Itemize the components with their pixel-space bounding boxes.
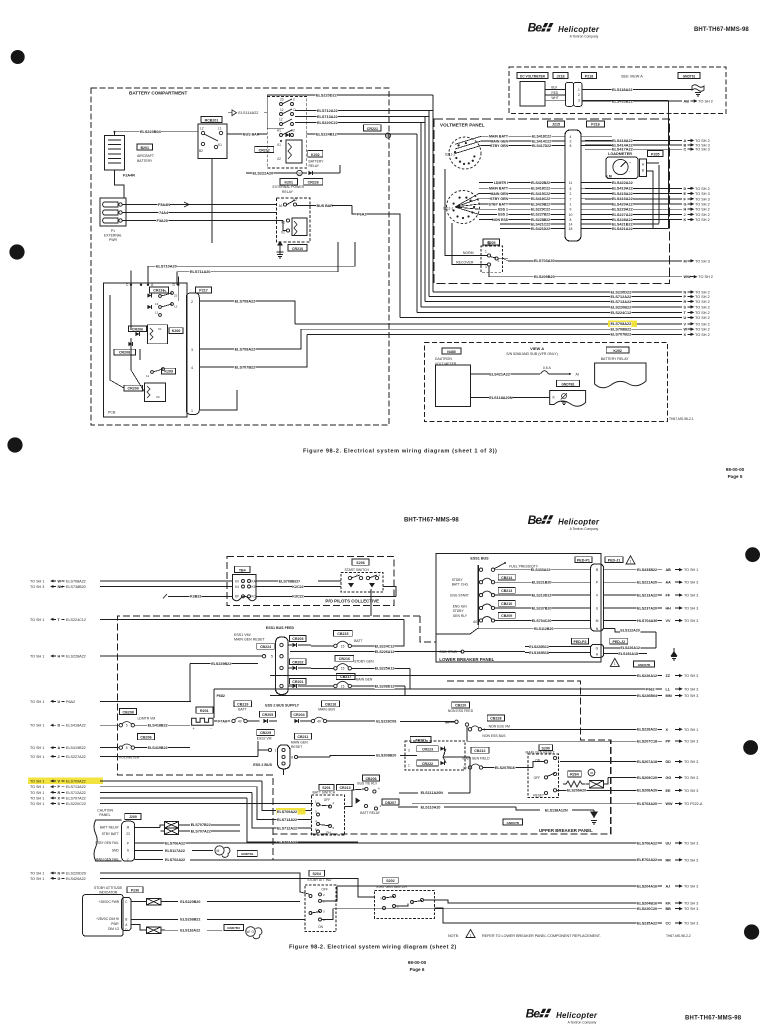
S201 dashed box bbox=[311, 795, 344, 835]
svg-text:12: 12 bbox=[280, 108, 284, 112]
svg-text:TO SH 1: TO SH 1 bbox=[30, 755, 44, 759]
svg-text:ELS110A20: ELS110A20 bbox=[421, 805, 441, 809]
svg-text:98-00-00: 98-00-00 bbox=[408, 960, 427, 965]
svg-text:BHT-TH67-MMS-98: BHT-TH67-MMS-98 bbox=[694, 27, 749, 33]
wire ELS229A22 to TO SH 2 bbox=[585, 208, 682, 210]
svg-text:ELS227A22: ELS227A22 bbox=[612, 213, 633, 217]
svg-text:50: 50 bbox=[445, 721, 449, 725]
svg-text:MAIN GEN: MAIN GEN bbox=[491, 192, 509, 196]
svg-text:S206: S206 bbox=[356, 561, 364, 565]
svg-text:2: 2 bbox=[558, 773, 560, 777]
wire ELS421D22 pin18 bbox=[500, 228, 565, 230]
wire ELS421A22 pin18 right bbox=[581, 228, 668, 230]
svg-text:K202: K202 bbox=[613, 349, 622, 353]
svg-text:J215: J215 bbox=[552, 123, 560, 127]
wires loadmeter bbox=[647, 162, 660, 164]
svg-text:ELS213D22: ELS213D22 bbox=[532, 593, 552, 597]
svg-text:1: 1 bbox=[578, 88, 580, 92]
svg-text:ELS713A22: ELS713A22 bbox=[66, 785, 86, 789]
punch hole bbox=[744, 924, 759, 939]
svg-text:ELS228A22: ELS228A22 bbox=[612, 218, 633, 222]
svg-text:Figure 98-2. Electrical syst: Figure 98-2. Electrical system wiring di… bbox=[289, 945, 457, 951]
svg-text:STDBY ATT IND: STDBY ATT IND bbox=[307, 878, 332, 882]
svg-text:A Textron Company: A Textron Company bbox=[570, 35, 599, 39]
wire ELS712A22 to batt switch bbox=[252, 792, 311, 828]
svg-text:ELS207C18: ELS207C18 bbox=[637, 740, 657, 744]
svg-text:74A4: 74A4 bbox=[159, 211, 169, 215]
label GND07B bbox=[634, 661, 655, 667]
svg-text:ELS707B22: ELS707B22 bbox=[235, 365, 256, 369]
svg-text:TO SH 2: TO SH 2 bbox=[695, 218, 710, 222]
xfuse att1 bbox=[132, 901, 147, 903]
svg-text:BUS TIE RLY: BUS TIE RLY bbox=[357, 781, 378, 785]
label GNDT81 bbox=[237, 850, 257, 856]
svg-text:NON ESS FEED: NON ESS FEED bbox=[448, 709, 474, 713]
svg-text:TO SH 3: TO SH 3 bbox=[30, 585, 44, 589]
svg-text:ELS703A20: ELS703A20 bbox=[637, 802, 657, 806]
svg-text:MAIN GEN RESET: MAIN GEN RESET bbox=[526, 750, 555, 754]
svg-text:ELS116A22: ELS116A22 bbox=[180, 929, 200, 933]
svg-text:TO SH 2: TO SH 2 bbox=[695, 203, 710, 207]
svg-text:ELS112B20: ELS112B20 bbox=[534, 627, 553, 631]
svg-text:ESS1 VM/: ESS1 VM/ bbox=[234, 633, 251, 637]
svg-text:MAIN GEN: MAIN GEN bbox=[318, 708, 335, 712]
svg-text:ELS208B20: ELS208B20 bbox=[376, 754, 396, 758]
switch S205 bbox=[483, 239, 500, 245]
svg-text:J218: J218 bbox=[557, 74, 565, 78]
wire ELS226B12 bbox=[525, 645, 591, 647]
svg-text:TO SH 3: TO SH 3 bbox=[695, 192, 710, 196]
svg-text:ELS416A22: ELS416A22 bbox=[612, 197, 633, 201]
svg-text:TO SH 2: TO SH 2 bbox=[695, 333, 710, 337]
svg-text:ELS422B22: ELS422B22 bbox=[531, 181, 550, 185]
dc voltmeter body bbox=[520, 82, 545, 107]
svg-text:10: 10 bbox=[569, 213, 573, 217]
wire G row bend bbox=[224, 878, 374, 897]
svg-text:TO SH 2: TO SH 2 bbox=[695, 208, 710, 212]
svg-text:5: 5 bbox=[570, 187, 572, 191]
rotary switch S211-2 bbox=[449, 137, 481, 169]
label GND7B3 bbox=[224, 924, 244, 930]
svg-text:ELS420A22: ELS420A22 bbox=[66, 877, 86, 881]
svg-text:TO SH 2: TO SH 2 bbox=[695, 311, 710, 315]
svg-text:W: W bbox=[684, 328, 688, 332]
svg-text:CR210: CR210 bbox=[292, 247, 303, 251]
svg-text:LL: LL bbox=[666, 687, 671, 691]
svg-text:15: 15 bbox=[341, 644, 345, 648]
breaker CB224 contacts bbox=[262, 655, 265, 658]
wire ELS708A22 to TO SH 2 bbox=[295, 323, 682, 325]
svg-text:1: 1 bbox=[485, 250, 487, 254]
svg-text:Helicopter: Helicopter bbox=[558, 518, 600, 527]
wires P216 to labels right bbox=[581, 135, 612, 137]
svg-text:CR212: CR212 bbox=[259, 148, 270, 152]
svg-text:CB225: CB225 bbox=[260, 731, 271, 735]
wire ELS213A22 to TO SH 3 bbox=[604, 594, 662, 596]
svg-text:GNDT61: GNDT61 bbox=[683, 74, 696, 78]
svg-text:VIEW A: VIEW A bbox=[530, 346, 544, 351]
svg-text:X1: X1 bbox=[277, 143, 281, 147]
svg-text:1: 1 bbox=[570, 203, 572, 207]
svg-text:AB: AB bbox=[684, 100, 690, 104]
wire ELS712A22 bbox=[295, 110, 433, 112]
switch S206 start switch bbox=[352, 559, 369, 565]
wire ELS421A22 viewA bbox=[470, 373, 540, 375]
svg-text:ELS418C22: ELS418C22 bbox=[532, 135, 551, 139]
svg-text:OFF: OFF bbox=[321, 887, 327, 891]
svg-text:C: C bbox=[684, 148, 687, 152]
wire ELS708A22 p217-2 bbox=[234, 299, 256, 304]
breaker CB206 bus tie bbox=[362, 775, 379, 781]
wire ELS117A22 bbox=[135, 849, 163, 851]
svg-text:ELS114A22: ELS114A22 bbox=[238, 111, 258, 115]
wire ELS116A22 bbox=[165, 929, 178, 931]
wire ELS220D22 to TO SH 2 bbox=[433, 291, 682, 293]
label DC VOLTMETER bbox=[517, 73, 548, 79]
dc voltmeter enclosure bbox=[509, 67, 726, 114]
svg-text:TO SH 1: TO SH 1 bbox=[30, 724, 44, 728]
svg-text:MAIN BATT: MAIN BATT bbox=[489, 135, 509, 139]
svg-text:ELS226B12: ELS226B12 bbox=[529, 645, 549, 649]
svg-text:M: M bbox=[684, 259, 687, 263]
svg-text:TO SH 2: TO SH 2 bbox=[695, 322, 710, 326]
svg-text:98-00-00: 98-00-00 bbox=[726, 467, 745, 472]
label K202 view A bbox=[606, 347, 629, 353]
svg-text:Helicopter: Helicopter bbox=[558, 25, 600, 34]
wire ELS236B22 bbox=[132, 918, 179, 920]
svg-text:X2: X2 bbox=[156, 395, 160, 399]
connector PED body bbox=[591, 564, 604, 631]
wire U to TO SH 2 bbox=[400, 317, 682, 319]
wire ELS418B22 bbox=[135, 724, 191, 726]
svg-text:ELS713A22: ELS713A22 bbox=[317, 115, 338, 119]
wire ELS112B20 bbox=[478, 625, 590, 629]
svg-text:EXTERNAL POWER: EXTERNAL POWER bbox=[273, 185, 305, 189]
svg-text:CB219: CB219 bbox=[237, 703, 248, 707]
svg-text:GND07B: GND07B bbox=[506, 821, 519, 825]
svg-text:KF: KF bbox=[235, 595, 239, 599]
svg-text:BATTERY RELAY: BATTERY RELAY bbox=[601, 357, 630, 361]
breaker CB207 bbox=[382, 799, 399, 805]
svg-text:P: P bbox=[127, 841, 129, 845]
wire S205 pin3 to WW bbox=[489, 266, 497, 277]
wire F3A20 bbox=[122, 220, 283, 222]
svg-text:P217: P217 bbox=[199, 289, 207, 293]
svg-text:ELS226A12: ELS226A12 bbox=[375, 650, 395, 654]
connector J218/P218 body bbox=[565, 82, 573, 106]
wire ELS229B22 bbox=[190, 663, 258, 665]
svg-text:AIRCRAFT: AIRCRAFT bbox=[137, 154, 154, 158]
svg-text:ELS421B22: ELS421B22 bbox=[612, 222, 633, 226]
svg-text:ELS226A12: ELS226A12 bbox=[620, 646, 640, 650]
svg-text:ELS738B20: ELS738B20 bbox=[66, 585, 86, 589]
svg-text:TB4: TB4 bbox=[239, 568, 246, 572]
connector J218 bbox=[553, 73, 568, 79]
svg-text:CB210: CB210 bbox=[501, 602, 512, 606]
svg-text:AI: AI bbox=[576, 372, 579, 376]
svg-text:ELS208D12: ELS208D12 bbox=[375, 684, 395, 688]
svg-text:23: 23 bbox=[126, 832, 130, 836]
svg-text:K209: K209 bbox=[164, 370, 173, 374]
label GND07B upper bbox=[503, 819, 523, 825]
svg-text:ELS209C20: ELS209C20 bbox=[637, 776, 657, 780]
svg-text:12: 12 bbox=[279, 118, 283, 122]
punch hole bbox=[745, 547, 760, 562]
wire ELS707A22 caution bbox=[182, 830, 240, 832]
svg-text:TO SH 3: TO SH 3 bbox=[684, 740, 698, 744]
svg-text:Be: Be bbox=[526, 1006, 541, 1020]
svg-text:P205: P205 bbox=[651, 152, 659, 156]
diode CR226 bbox=[304, 179, 323, 185]
svg-text:M: M bbox=[127, 826, 130, 830]
svg-text:TO SH 3: TO SH 3 bbox=[684, 907, 698, 911]
wire ELS221A20 to TO SH 3 bbox=[604, 581, 662, 583]
svg-text:P6A2: P6A2 bbox=[357, 212, 367, 216]
breaker CB219 bbox=[234, 701, 252, 707]
svg-text:5: 5 bbox=[126, 724, 128, 728]
svg-text:MAIN GEN: MAIN GEN bbox=[491, 139, 509, 143]
connector J215/P216 body bbox=[565, 130, 581, 241]
svg-text:BATTERY: BATTERY bbox=[309, 160, 325, 164]
page 6 header logo bbox=[528, 513, 600, 531]
wire ELS707B22 caution bbox=[182, 824, 240, 826]
wire P682 bbox=[216, 694, 226, 698]
svg-text:HLS704A30: HLS704A30 bbox=[637, 619, 657, 623]
svg-text:RED: RED bbox=[551, 91, 558, 95]
svg-text:ELS415A22: ELS415A22 bbox=[612, 192, 633, 196]
svg-text:11: 11 bbox=[155, 311, 158, 315]
wire K2C22 bbox=[256, 586, 341, 588]
wire ELS224B12 horizontal bbox=[386, 133, 417, 135]
lower breaker panel box bbox=[436, 553, 601, 662]
svg-text:ELS224B12: ELS224B12 bbox=[316, 132, 337, 136]
svg-text:14: 14 bbox=[569, 223, 573, 227]
svg-text:NOTE:: NOTE: bbox=[448, 934, 459, 938]
svg-text:F2A4R: F2A4R bbox=[123, 174, 135, 178]
wire F2A4R battery to ground bbox=[115, 170, 125, 198]
wire ELS703A30 to TO SH 3 bbox=[508, 260, 682, 262]
wire ELS220C20 to TO SH 3 bbox=[333, 908, 662, 910]
wire ELS710A20 to node C bbox=[130, 271, 132, 285]
svg-text:ELS707B22: ELS707B22 bbox=[611, 333, 632, 337]
wire ELS223B04 bbox=[115, 131, 199, 133]
svg-text:DIM LO: DIM LO bbox=[108, 927, 120, 931]
svg-text:11: 11 bbox=[569, 181, 573, 185]
battery relay blob bbox=[595, 363, 646, 388]
wire ELS713A22 vertical bbox=[424, 117, 426, 302]
svg-text:ELS227A22: ELS227A22 bbox=[66, 755, 86, 759]
wire ELS228B22 bbox=[479, 219, 565, 221]
wire ess1 bus feeder loop bbox=[436, 628, 478, 634]
svg-text:K: K bbox=[684, 218, 687, 222]
voltmeter connect lines bbox=[189, 725, 191, 747]
svg-text:TO SH 2: TO SH 2 bbox=[695, 328, 710, 332]
wire ELS213D22 bbox=[495, 594, 591, 596]
svg-text:TO SH 1: TO SH 1 bbox=[684, 728, 698, 732]
svg-text:LOWER BREAKER PANEL: LOWER BREAKER PANEL bbox=[439, 657, 494, 662]
label K202 bbox=[308, 151, 323, 157]
resistor R264 bbox=[568, 771, 582, 777]
switch S204 label bbox=[309, 870, 325, 876]
svg-text:TO P222-A: TO P222-A bbox=[684, 802, 703, 806]
svg-text:CR209: CR209 bbox=[128, 387, 139, 391]
svg-text:ELS706A22: ELS706A22 bbox=[637, 841, 657, 845]
resistor zigzag R264 bbox=[563, 781, 585, 787]
svg-text:MM: MM bbox=[666, 694, 672, 698]
svg-text:ELS224C12: ELS224C12 bbox=[375, 644, 395, 648]
svg-text:PWR: PWR bbox=[111, 922, 119, 926]
svg-text:X2: X2 bbox=[277, 157, 281, 161]
svg-text:ELS713A22: ELS713A22 bbox=[277, 818, 297, 822]
svg-text:1: 1 bbox=[191, 409, 193, 413]
svg-text:ELS712A22: ELS712A22 bbox=[317, 109, 338, 113]
s290 vertical bbox=[554, 760, 556, 773]
svg-text:ELS226A12: ELS226A12 bbox=[637, 674, 657, 678]
wire non ess riser bbox=[467, 726, 495, 741]
svg-text:CR201: CR201 bbox=[292, 680, 303, 684]
svg-text:M: M bbox=[596, 619, 599, 623]
wire ELS224B12 bbox=[307, 133, 386, 135]
svg-text:ELS227B22: ELS227B22 bbox=[531, 213, 550, 217]
svg-text:15: 15 bbox=[341, 684, 345, 688]
svg-text:RESET: RESET bbox=[533, 794, 544, 798]
svg-text:VV: VV bbox=[666, 619, 671, 623]
circuit breaker CB215 bbox=[334, 631, 353, 637]
svg-text:R: R bbox=[684, 300, 687, 304]
svg-text:S201: S201 bbox=[322, 786, 330, 790]
wire ELS204A16 to TO SH 3 bbox=[337, 885, 662, 887]
svg-text:ELS220C20: ELS220C20 bbox=[637, 907, 657, 911]
svg-text:ZZ: ZZ bbox=[666, 674, 671, 678]
wire P217 pin1 stub bbox=[199, 390, 237, 410]
svg-text:OFF: OFF bbox=[324, 798, 330, 802]
svg-text:ELS711A20: ELS711A20 bbox=[190, 270, 210, 274]
svg-text:ELS713A22: ELS713A22 bbox=[611, 300, 632, 304]
svg-text:BATT SWITCH: BATT SWITCH bbox=[313, 790, 336, 794]
svg-text:ELS228C08: ELS228C08 bbox=[376, 719, 396, 723]
svg-text:NN: NN bbox=[58, 585, 64, 589]
svg-text:ELS228A22: ELS228A22 bbox=[66, 655, 86, 659]
svg-text:TO SH 2: TO SH 2 bbox=[695, 187, 710, 191]
svg-text:4: 4 bbox=[570, 135, 572, 139]
svg-text:ELS417D22: ELS417D22 bbox=[532, 144, 551, 148]
svg-text:A: A bbox=[58, 746, 61, 750]
svg-text:K4: K4 bbox=[235, 585, 239, 589]
svg-text:KK: KK bbox=[666, 901, 672, 905]
svg-text:ELS228A22: ELS228A22 bbox=[637, 728, 657, 732]
wire S211 riser1 bbox=[445, 169, 487, 256]
svg-text:TO SH 3: TO SH 3 bbox=[684, 789, 698, 793]
svg-text:ELS224C12: ELS224C12 bbox=[611, 311, 632, 315]
svg-text:L1: L1 bbox=[218, 127, 222, 131]
connector P230 bbox=[127, 887, 143, 893]
wire ELS713A22 bbox=[295, 116, 429, 118]
svg-text:STBY BATT: STBY BATT bbox=[489, 202, 509, 206]
svg-text:8: 8 bbox=[570, 144, 572, 148]
wire EE junction bbox=[557, 789, 562, 791]
svg-text:TO SH 3: TO SH 3 bbox=[684, 858, 698, 862]
svg-text:ELS414C22: ELS414C22 bbox=[532, 139, 551, 143]
svg-text:ELS420B22: ELS420B22 bbox=[531, 202, 550, 206]
svg-text:23: 23 bbox=[280, 98, 284, 102]
svg-text:CR226: CR226 bbox=[308, 181, 319, 185]
svg-text:8: 8 bbox=[570, 218, 572, 222]
wire ELS228A22 to TO SH 1 bbox=[510, 728, 662, 730]
svg-text:A Textron Company: A Textron Company bbox=[570, 527, 599, 531]
svg-text:TO SH 3: TO SH 3 bbox=[684, 842, 698, 846]
svg-text:ELS433B22: ELS433B22 bbox=[612, 99, 633, 103]
svg-text:ELS712A22: ELS712A22 bbox=[277, 826, 297, 830]
svg-text:D: D bbox=[684, 187, 687, 191]
fuse symbol bbox=[541, 371, 549, 374]
svg-text:TB201: TB201 bbox=[415, 738, 426, 742]
svg-text:4: 4 bbox=[191, 366, 193, 370]
xfuse att2 bbox=[132, 925, 147, 930]
svg-text:P682: P682 bbox=[217, 694, 225, 698]
switch S290 main gen reset bbox=[539, 745, 553, 751]
svg-text:ELS204A16: ELS204A16 bbox=[637, 885, 657, 889]
punch hole bbox=[7, 437, 22, 452]
wire ELS703A20 to TO P222-A bbox=[412, 803, 662, 805]
svg-text:BATTERY COMPARTMENT: BATTERY COMPARTMENT bbox=[129, 91, 187, 96]
svg-text:TO SH 1: TO SH 1 bbox=[30, 700, 44, 704]
svg-text:K206: K206 bbox=[172, 329, 181, 333]
svg-text:ELS220B22: ELS220B22 bbox=[611, 305, 632, 309]
svg-text:N: N bbox=[58, 872, 61, 876]
svg-text:TO SH 3: TO SH 3 bbox=[695, 197, 710, 201]
svg-text:P216: P216 bbox=[591, 123, 599, 127]
svg-text:2: 2 bbox=[191, 300, 193, 304]
connector J200 bbox=[125, 813, 142, 819]
svg-text:D: D bbox=[58, 724, 61, 728]
label B201 bbox=[137, 144, 153, 150]
svg-text:TO SH 2: TO SH 2 bbox=[695, 213, 710, 217]
shunt R201 bbox=[196, 707, 213, 713]
svg-text:S211-1: S211-1 bbox=[443, 207, 454, 211]
svg-text:ELS708A22: ELS708A22 bbox=[235, 299, 256, 303]
svg-text:5: 5 bbox=[126, 746, 128, 750]
circuit breaker CB216 bbox=[335, 655, 354, 661]
svg-text:ELS420A22: ELS420A22 bbox=[612, 202, 633, 206]
svg-text:OFF: OFF bbox=[534, 776, 540, 780]
S202 dashed box bbox=[374, 890, 434, 918]
svg-text:PED-P1: PED-P1 bbox=[577, 558, 590, 562]
svg-text:1: 1 bbox=[275, 748, 277, 752]
wire ELS220B22 to TO SH 2 bbox=[421, 306, 682, 308]
svg-text:NON ESS VM: NON ESS VM bbox=[489, 724, 510, 728]
svg-text:45: 45 bbox=[590, 771, 594, 775]
wire ELS111A20N bbox=[399, 792, 418, 794]
svg-text:9: 9 bbox=[570, 208, 572, 212]
indicator body bbox=[83, 895, 124, 937]
svg-text:N: N bbox=[684, 291, 687, 295]
svg-text:CB228: CB228 bbox=[490, 717, 501, 721]
wire ELS711A20 bbox=[177, 242, 338, 285]
svg-text:CB208: CB208 bbox=[123, 710, 134, 714]
circuit breaker CB213 bbox=[498, 588, 515, 594]
svg-text:ELS213A22: ELS213A22 bbox=[637, 594, 657, 598]
wire ELS417D22 bbox=[481, 145, 565, 147]
svg-text:TO SH 1: TO SH 1 bbox=[30, 791, 44, 795]
svg-text:ELS220D22: ELS220D22 bbox=[611, 290, 632, 294]
wire ELS433B22 AB bbox=[582, 100, 668, 102]
wires dc voltmeter to connector bbox=[545, 89, 565, 91]
wire F7A8 bbox=[214, 720, 230, 722]
wire ELS204B16 to TO SH 3 bbox=[455, 902, 662, 904]
wire ELS704C20 bbox=[495, 620, 591, 622]
svg-text:K2C22: K2C22 bbox=[292, 585, 303, 589]
diode CR209 bbox=[124, 385, 142, 391]
